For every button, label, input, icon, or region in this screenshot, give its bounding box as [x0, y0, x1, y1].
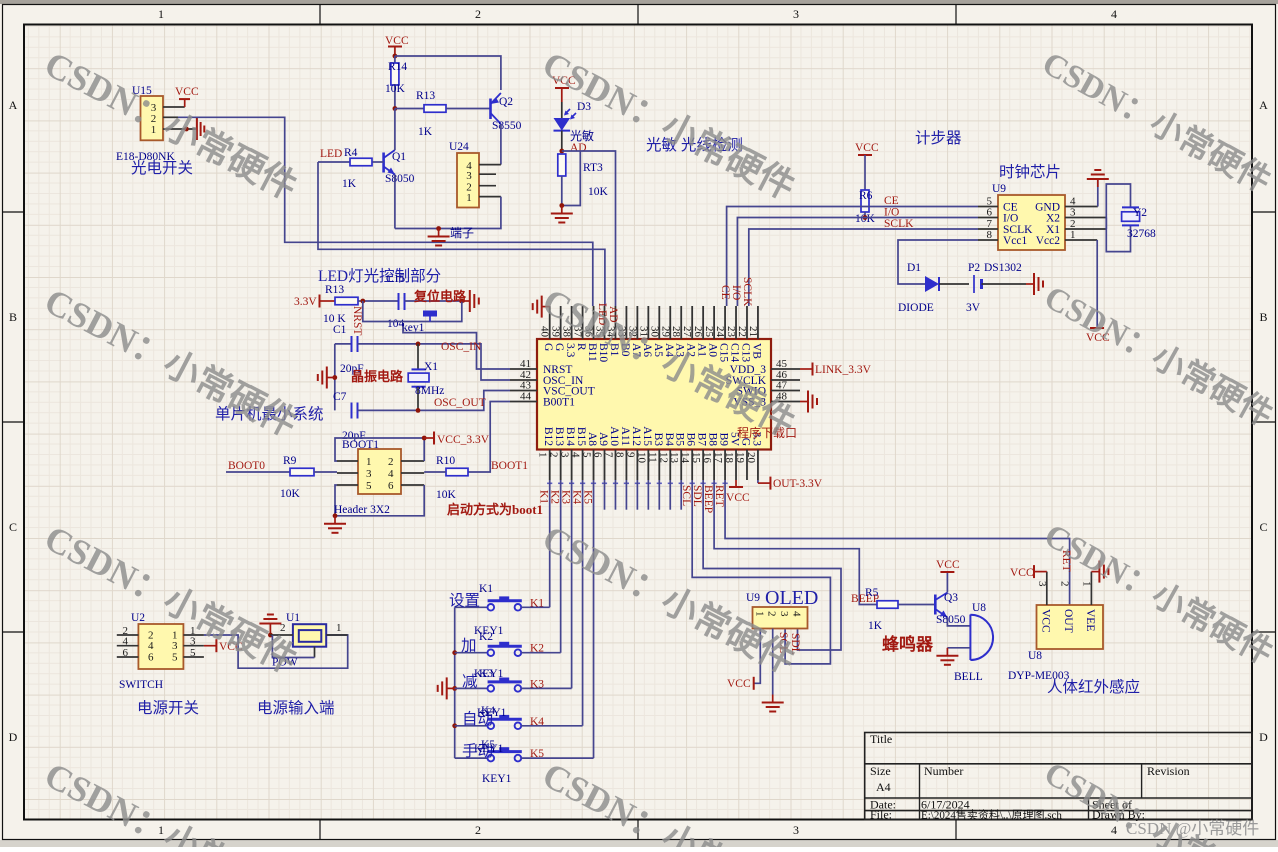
wire bell to ground — [947, 647, 970, 649]
svg-text:B: B — [9, 310, 17, 324]
title block — [865, 732, 1252, 822]
ground U15 pin1 — [184, 118, 204, 140]
svg-text:R14: R14 — [388, 61, 407, 73]
svg-text:1K: 1K — [418, 126, 433, 138]
svg-text:11: 11 — [646, 452, 658, 463]
svg-text:SWITCH: SWITCH — [119, 679, 163, 691]
power VCC OLED — [727, 677, 754, 690]
wire Vcc1 to battery — [898, 240, 978, 284]
junction X1 top — [416, 342, 421, 347]
svg-text:6: 6 — [592, 452, 604, 458]
no-connect ticks — [547, 482, 728, 484]
svg-text:Q1: Q1 — [392, 151, 406, 163]
display U9 OLED — [746, 587, 818, 629]
svg-text:B14: B14 — [564, 427, 576, 446]
power VCC Q3 — [936, 559, 960, 593]
svg-text:R6: R6 — [859, 190, 873, 202]
svg-text:10K: 10K — [436, 489, 457, 501]
ground header — [334, 516, 336, 524]
svg-text:I/O: I/O — [730, 285, 742, 300]
sensor U8 DYP-ME003 — [1036, 572, 1103, 649]
capacitor C7 — [333, 391, 358, 419]
svg-text:19: 19 — [734, 452, 746, 464]
svg-text:3: 3 — [466, 170, 472, 182]
svg-text:VCC: VCC — [726, 492, 750, 504]
svg-text:时钟芯片: 时钟芯片 — [999, 163, 1061, 181]
wire OSC_IN — [358, 344, 511, 380]
svg-text:16: 16 — [701, 452, 713, 464]
svg-text:计步器: 计步器 — [915, 129, 962, 147]
svg-text:K2: K2 — [530, 643, 544, 655]
svg-text:设置: 设置 — [449, 591, 480, 609]
wire U2 pin1 to U1 pin1 — [204, 635, 348, 668]
svg-text:1K: 1K — [868, 620, 883, 632]
svg-text:5: 5 — [172, 652, 178, 664]
svg-text:DIODE: DIODE — [898, 302, 934, 314]
LED D3 — [554, 101, 592, 151]
svg-text:U1: U1 — [286, 612, 300, 624]
svg-text:C1: C1 — [333, 324, 347, 336]
svg-text:U2: U2 — [131, 612, 145, 624]
svg-text:B6: B6 — [685, 433, 697, 447]
svg-text:21: 21 — [747, 326, 759, 337]
svg-text:R: R — [575, 343, 587, 351]
svg-text:R5: R5 — [865, 587, 879, 599]
svg-text:3: 3 — [778, 611, 790, 617]
svg-text:VB: VB — [750, 343, 762, 359]
svg-text:AD: AD — [570, 142, 587, 154]
wire Q3 emitter to bell — [947, 618, 970, 626]
svg-text:S8050: S8050 — [385, 173, 415, 185]
resistor R14 — [385, 56, 407, 109]
svg-text:I/O: I/O — [1003, 213, 1018, 225]
svg-text:Q2: Q2 — [499, 96, 513, 108]
svg-text:R10: R10 — [436, 455, 455, 467]
svg-text:G: G — [542, 343, 554, 351]
junction U1 pin2 — [268, 633, 273, 638]
svg-text:27: 27 — [681, 326, 693, 338]
svg-text:C14: C14 — [729, 343, 741, 362]
svg-text:RT3: RT3 — [583, 162, 603, 174]
svg-text:加: 加 — [461, 637, 477, 655]
svg-text:K4: K4 — [481, 705, 495, 717]
svg-text:A: A — [9, 98, 18, 112]
svg-text:1: 1 — [753, 611, 765, 617]
resistor R6 — [855, 190, 876, 225]
svg-text:SCLK: SCLK — [741, 277, 753, 307]
svg-text:22: 22 — [736, 326, 748, 337]
diode D1 — [898, 262, 969, 314]
svg-text:R4: R4 — [344, 147, 358, 159]
junction RT3 bottom — [559, 203, 564, 208]
wire K2 — [560, 480, 562, 653]
power VCC U15 pin3 — [175, 86, 199, 107]
wire keys common rail — [454, 607, 456, 758]
svg-text:C13: C13 — [739, 343, 751, 362]
svg-text:6: 6 — [388, 480, 394, 492]
svg-text:5: 5 — [366, 480, 372, 492]
svg-text:电源输入端: 电源输入端 — [257, 699, 335, 717]
svg-text:E:\2024售卖资料\..\原理图.sch: E:\2024售卖资料\..\原理图.sch — [921, 808, 1062, 822]
svg-text:3.3V: 3.3V — [294, 296, 317, 308]
pushbutton K2 — [455, 642, 561, 656]
svg-text:3: 3 — [172, 640, 178, 652]
transistor Q3 S8050 — [935, 592, 965, 626]
svg-text:Y2: Y2 — [1133, 207, 1147, 219]
junction keys rail — [452, 723, 457, 728]
no-connect stubs pins6-13 — [605, 480, 682, 510]
ground RT3 — [561, 206, 563, 214]
svg-text:28: 28 — [670, 326, 682, 338]
svg-text:BOOT1: BOOT1 — [491, 460, 528, 472]
svg-text:Vcc1: Vcc1 — [1003, 235, 1028, 247]
svg-text:K1: K1 — [530, 597, 544, 609]
svg-text:12: 12 — [657, 452, 669, 463]
svg-text:D: D — [9, 730, 18, 744]
svg-text:1: 1 — [158, 7, 164, 21]
power VCC pin18 — [726, 480, 750, 504]
svg-text:LINK_3.3V: LINK_3.3V — [815, 364, 872, 376]
svg-text:10K: 10K — [385, 83, 406, 95]
svg-text:B: B — [1259, 310, 1267, 324]
svg-text:A: A — [1259, 98, 1268, 112]
wire header pin5 loop to ground — [335, 485, 424, 516]
svg-text:K2: K2 — [479, 631, 493, 643]
svg-text:CE: CE — [719, 285, 731, 300]
svg-text:Revision: Revision — [1147, 764, 1190, 778]
svg-text:A8: A8 — [586, 432, 598, 446]
junction ground rail — [436, 226, 441, 231]
svg-text:2: 2 — [280, 622, 286, 634]
svg-text:Q3: Q3 — [944, 592, 958, 604]
svg-text:VCC: VCC — [1010, 567, 1034, 579]
power 3.3V — [294, 295, 335, 309]
svg-text:2: 2 — [475, 7, 481, 21]
wire Q1 emitter to ground rail — [394, 175, 396, 229]
svg-text:44: 44 — [520, 391, 532, 403]
svg-text:S8050: S8050 — [936, 614, 966, 626]
junction keys ground — [452, 686, 457, 691]
svg-text:B7: B7 — [696, 433, 708, 447]
svg-text:1: 1 — [336, 622, 342, 634]
pushbutton K3 — [455, 678, 572, 692]
svg-text:启动方式为boot1: 启动方式为boot1 — [447, 502, 543, 517]
svg-text:14: 14 — [679, 452, 691, 464]
crystal Y2 — [1106, 184, 1156, 252]
resistor R4 — [318, 147, 384, 190]
ground OLED — [772, 695, 774, 703]
svg-text:OLED: OLED — [765, 587, 818, 609]
svg-text:3: 3 — [793, 823, 799, 837]
pushbutton K5 — [455, 747, 594, 761]
wire Q2 collector to U24 pin4 — [500, 124, 502, 165]
svg-text:15: 15 — [690, 452, 702, 464]
transistor Q2 S8550 — [491, 93, 522, 132]
wire U1 bottom terminal — [272, 635, 314, 658]
wire I/O to MCU pin23 — [737, 218, 978, 307]
resistor R13 — [395, 90, 491, 138]
svg-text:BOOT0: BOOT0 — [228, 460, 265, 472]
wire U15 pin2 to MCU pin36 — [178, 117, 593, 306]
ground U9 GND pin4 — [1087, 170, 1109, 207]
svg-text:VCC: VCC — [855, 142, 879, 154]
svg-text:B9: B9 — [718, 433, 730, 447]
pushbutton K1 — [455, 596, 550, 610]
wire OSC_OUT — [358, 391, 511, 411]
svg-text:3V: 3V — [966, 302, 981, 314]
battery P2 3V — [966, 262, 1026, 314]
connector U15 — [132, 85, 197, 140]
svg-text:光敏: 光敏 — [570, 128, 594, 143]
ground battery — [1026, 283, 1034, 285]
power VCC PIR — [1010, 565, 1047, 579]
svg-text:20: 20 — [745, 452, 757, 464]
svg-text:3: 3 — [366, 468, 372, 480]
switch key1 — [363, 301, 462, 322]
svg-text:Vcc2: Vcc2 — [1036, 235, 1061, 247]
svg-text:3.3: 3.3 — [564, 343, 576, 358]
MCU main chip — [537, 339, 771, 450]
svg-text:5: 5 — [581, 452, 593, 458]
connector U2 SWITCH — [117, 612, 204, 669]
svg-text:BELL: BELL — [954, 671, 983, 683]
junction VCC_3.3V — [422, 436, 427, 441]
svg-text:9: 9 — [624, 452, 636, 458]
wire OLED pin1 to VCC — [755, 629, 761, 684]
junction NRST — [360, 299, 365, 304]
svg-text:U8: U8 — [972, 602, 986, 614]
svg-text:VEE: VEE — [1084, 609, 1096, 631]
header BOOT1 3X2 — [337, 430, 424, 494]
svg-text:13: 13 — [668, 452, 680, 464]
svg-text:B12: B12 — [542, 427, 554, 446]
junction reset ground — [459, 299, 464, 304]
svg-text:4: 4 — [1111, 7, 1117, 21]
IC U9 DS1302 — [978, 183, 1106, 250]
junction R6 on I/O line — [863, 215, 868, 220]
svg-text:File:: File: — [870, 808, 892, 822]
svg-text:B5: B5 — [674, 433, 686, 447]
svg-text:复位电路: 复位电路 — [413, 289, 467, 304]
svg-text:K3: K3 — [530, 678, 544, 690]
svg-text:A10: A10 — [608, 426, 620, 446]
wire U24 pin1 to ground rail — [395, 197, 501, 229]
junction D3/RT3 — [559, 149, 564, 154]
ground osc — [327, 377, 335, 379]
power VCC_3.3V — [424, 432, 490, 447]
svg-text:20pF: 20pF — [342, 430, 366, 442]
svg-text:电源开关: 电源开关 — [137, 699, 199, 717]
svg-text:VCC: VCC — [936, 559, 960, 571]
power VCC D3 — [552, 75, 576, 102]
power VCC below Y2 — [1086, 328, 1110, 344]
pushbutton K4 — [455, 715, 583, 729]
power VCC R6 — [855, 142, 879, 190]
svg-text:32768: 32768 — [1127, 228, 1156, 240]
svg-text:Size: Size — [870, 764, 891, 778]
svg-text:Header 3X2: Header 3X2 — [334, 504, 390, 516]
svg-text:CE: CE — [884, 195, 899, 207]
svg-text:40: 40 — [539, 326, 551, 338]
crystal X1 — [408, 344, 444, 411]
ground 端子 — [428, 226, 474, 246]
wire BEEP net — [714, 480, 877, 605]
wire LED net to MCU pin35 — [318, 162, 605, 306]
svg-text:VCC: VCC — [727, 678, 751, 690]
wire RET net — [725, 480, 1070, 605]
svg-text:SCL: SCL — [680, 485, 692, 506]
svg-text:6: 6 — [148, 652, 154, 664]
wire OLED pin2 to ground — [772, 629, 774, 695]
ground PIR VEE — [1091, 571, 1099, 573]
junction osc ground — [332, 375, 337, 380]
resistor R5 — [865, 587, 935, 632]
svg-text:S8550: S8550 — [492, 120, 522, 132]
svg-text:CSDN @小常硬件: CSDN @小常硬件 — [1126, 819, 1259, 838]
svg-text:X1: X1 — [424, 361, 438, 373]
thermistor RT3 — [558, 151, 609, 206]
svg-text:VCC: VCC — [175, 86, 199, 98]
wire Vcc2 to VCC — [1096, 240, 1098, 328]
svg-text:LED灯光控制部分: LED灯光控制部分 — [318, 267, 441, 285]
wire K4 — [582, 480, 584, 726]
svg-text:23: 23 — [725, 326, 737, 338]
svg-text:26: 26 — [692, 326, 704, 338]
svg-text:18: 18 — [723, 452, 735, 464]
svg-text:2: 2 — [766, 611, 778, 617]
svg-text:A12: A12 — [630, 426, 642, 446]
svg-text:D: D — [1259, 730, 1268, 744]
svg-text:1: 1 — [466, 192, 472, 204]
svg-text:K1: K1 — [479, 583, 493, 595]
svg-text:C: C — [9, 520, 17, 534]
svg-text:B00T1: B00T1 — [543, 397, 575, 409]
resistor R10 — [424, 455, 468, 501]
svg-text:A15: A15 — [641, 426, 653, 446]
wire CE to MCU pin24 — [727, 207, 978, 307]
connector U24 — [449, 141, 501, 208]
buzzer U8 BELL — [954, 602, 993, 683]
svg-text:A4: A4 — [876, 780, 891, 794]
capacitor C1 — [333, 324, 358, 352]
svg-text:NRST: NRST — [351, 306, 363, 335]
svg-text:C15: C15 — [718, 343, 730, 362]
svg-text:B13: B13 — [553, 427, 565, 446]
svg-text:P2: P2 — [968, 262, 980, 274]
svg-text:B3: B3 — [652, 433, 664, 447]
wire VCC to Q2 emitter — [395, 56, 501, 90]
wire header pin1 loop to VCC_3.3V — [335, 438, 424, 461]
svg-text:4: 4 — [388, 468, 394, 480]
wire SCL net — [692, 480, 830, 664]
svg-text:VCC_3.3V: VCC_3.3V — [437, 434, 490, 446]
svg-text:2: 2 — [475, 823, 481, 837]
svg-text:K3: K3 — [479, 668, 493, 680]
ground bell — [946, 648, 948, 656]
svg-text:Number: Number — [924, 764, 963, 778]
svg-text:OSC_IN: OSC_IN — [441, 341, 482, 353]
wire NRST to MCU pin41 — [403, 326, 510, 369]
svg-text:10: 10 — [635, 452, 647, 464]
svg-text:DS1302: DS1302 — [984, 262, 1022, 274]
svg-text:R13: R13 — [325, 284, 344, 296]
wire AD to MCU pin34 — [562, 151, 616, 306]
connector U1 POW — [270, 612, 347, 647]
wire K5 — [593, 480, 595, 758]
svg-text:G: G — [553, 343, 565, 351]
svg-text:25: 25 — [703, 326, 715, 338]
net labels K1-K5 rotated — [538, 490, 594, 504]
wire Q1 collector up — [394, 109, 396, 151]
svg-text:B4: B4 — [663, 433, 675, 447]
svg-text:2: 2 — [1059, 581, 1071, 587]
svg-text:R9: R9 — [283, 455, 297, 467]
wire C1 left rail — [334, 344, 336, 411]
transistor Q1 S8050 — [384, 150, 415, 185]
svg-text:3: 3 — [559, 452, 571, 458]
ground pin48 — [800, 401, 808, 403]
svg-text:OUT: OUT — [1062, 609, 1074, 633]
svg-text:U9: U9 — [746, 592, 760, 604]
junction R14/R13 — [393, 106, 398, 111]
ground reset — [462, 300, 470, 302]
power VCC U2 — [204, 639, 243, 653]
power OUT-3.3V pin20 — [758, 477, 823, 490]
svg-text:C: C — [1259, 520, 1267, 534]
junction X1 bottom — [416, 408, 421, 413]
svg-text:A9: A9 — [597, 432, 609, 446]
svg-text:晶振电路: 晶振电路 — [351, 369, 404, 384]
svg-text:VCC: VCC — [1039, 609, 1051, 633]
wire C15 to ground — [405, 300, 462, 302]
svg-text:1: 1 — [366, 456, 372, 468]
svg-text:C7: C7 — [333, 391, 347, 403]
svg-text:OUT-3.3V: OUT-3.3V — [773, 478, 823, 490]
wire MCU pin44 to R10 — [468, 402, 510, 473]
svg-text:U8: U8 — [1028, 650, 1042, 662]
ground U1 — [259, 615, 281, 636]
svg-text:B8: B8 — [707, 433, 719, 447]
svg-text:人体红外感应: 人体红外感应 — [1047, 677, 1140, 696]
svg-text:光电开关: 光电开关 — [131, 159, 193, 177]
svg-text:4: 4 — [148, 640, 154, 652]
svg-text:4: 4 — [791, 611, 803, 617]
svg-text:K5: K5 — [530, 748, 544, 760]
svg-text:1K: 1K — [342, 178, 357, 190]
svg-text:2: 2 — [388, 456, 394, 468]
resistor R13 pullup — [323, 284, 399, 325]
svg-text:2: 2 — [548, 452, 560, 458]
svg-text:R13: R13 — [416, 90, 435, 102]
svg-text:D1: D1 — [907, 262, 921, 274]
svg-text:OSC_OUT: OSC_OUT — [434, 397, 486, 409]
svg-text:B15: B15 — [575, 427, 587, 446]
svg-text:KEY1: KEY1 — [482, 773, 512, 785]
svg-text:U24: U24 — [449, 141, 469, 153]
junction keys rail — [452, 650, 457, 655]
ground keys — [447, 687, 455, 689]
svg-text:Title: Title — [870, 732, 892, 746]
svg-text:LED: LED — [320, 148, 342, 160]
svg-text:8: 8 — [613, 452, 625, 458]
svg-text:U9: U9 — [992, 183, 1006, 195]
svg-text:4: 4 — [570, 452, 582, 458]
svg-text:端子: 端子 — [450, 226, 474, 240]
wire K1 — [549, 480, 551, 607]
svg-text:A0: A0 — [707, 343, 719, 357]
junction header ground — [333, 513, 338, 518]
svg-text:7: 7 — [602, 452, 614, 458]
